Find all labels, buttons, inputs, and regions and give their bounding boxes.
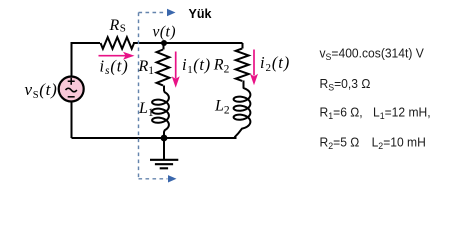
inductor L2	[234, 81, 251, 138]
wire bottom rail	[72, 137, 237, 139]
svg-text:vS(t): vS(t)	[25, 80, 58, 101]
svg-text:R1=6 Ω,L1=12 mH,: R1=6 Ω,L1=12 mH,	[320, 105, 431, 121]
svg-text:is(t): is(t)	[100, 56, 129, 77]
svg-text:R2: R2	[213, 57, 230, 76]
dashed boundary top arrow	[139, 12, 167, 14]
source VS	[59, 77, 84, 102]
junction dot	[161, 135, 168, 142]
dashed boundary bottom arrow	[139, 178, 168, 180]
svg-text:RS: RS	[109, 17, 126, 34]
resistor R2	[236, 49, 249, 81]
wire left branch lower	[71, 102, 73, 139]
wire R1 branch stub	[163, 43, 165, 50]
svg-text:R2=5 ΩL2=10 mH: R2=5 ΩL2=10 mH	[320, 135, 426, 151]
inductor L1	[152, 86, 169, 139]
wire top rail right	[133, 42, 243, 44]
parameters text	[320, 46, 431, 151]
ground	[150, 138, 178, 168]
wire left branch upper	[71, 42, 73, 77]
svg-text:RS=0,3 Ω: RS=0,3 Ω	[320, 77, 371, 93]
svg-text:v(t): v(t)	[153, 24, 177, 41]
current arrow is	[99, 52, 135, 60]
node v(t) dot	[161, 40, 167, 46]
source tilde	[66, 88, 77, 92]
svg-text:L2: L2	[214, 98, 230, 117]
current arrow i1	[172, 52, 180, 88]
wire R2 branch stub	[242, 43, 244, 49]
svg-text:vS=400.cos(314t) V: vS=400.cos(314t) V	[320, 46, 425, 62]
svg-text:Yük: Yük	[189, 7, 212, 21]
svg-text:i2(t): i2(t)	[260, 53, 290, 74]
resistor RS	[101, 37, 135, 49]
svg-text:i1(t): i1(t)	[182, 55, 211, 76]
source minus sign	[68, 96, 75, 98]
dashed boundary vertical	[138, 13, 140, 179]
svg-text:R1: R1	[138, 58, 155, 77]
wire top rail left	[72, 42, 101, 44]
resistor R1	[157, 50, 170, 86]
source plus sign	[68, 78, 75, 85]
current arrow i2	[250, 50, 258, 86]
